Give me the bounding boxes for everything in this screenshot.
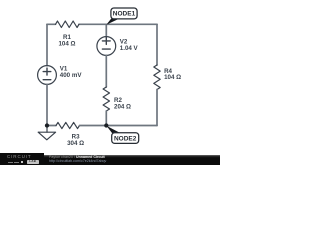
wire top from top-left corner to right corner	[47, 23, 157, 25]
resistor R4	[154, 65, 160, 90]
wire V2 top stub	[105, 24, 107, 36]
label V2 value	[120, 39, 139, 52]
wire left vertical upper (top corner to V1 top)	[46, 24, 48, 65]
voltage source V2	[97, 37, 116, 56]
node NODE1 flag	[106, 8, 137, 25]
node NODE2 flag	[107, 126, 139, 144]
footer bar	[0, 155, 220, 165]
CircuitLab logo	[0, 153, 44, 166]
wire bottom middle (R3 to NODE2 junction to right corner)	[80, 125, 158, 127]
resistor R3	[56, 122, 80, 128]
footer credits text	[49, 155, 219, 163]
svg-text:204 Ω: 204 Ω	[114, 103, 131, 110]
wire right vertical lower (R4 to bottom corner)	[156, 90, 158, 126]
wire left vertical lower (V1 bottom to ground junction)	[46, 84, 48, 125]
label R2 value	[114, 97, 131, 110]
svg-text:104 Ω: 104 Ω	[58, 40, 75, 47]
label R4 value	[164, 68, 181, 81]
label R3 value	[67, 134, 84, 148]
wire bottom left (junction to R3)	[47, 125, 56, 127]
svg-text:400 mV: 400 mV	[60, 72, 83, 79]
voltage source V1	[38, 66, 57, 85]
wire right vertical upper (top corner to R4)	[156, 24, 158, 65]
svg-text:304 Ω: 304 Ω	[67, 140, 84, 147]
junction dot at NODE2	[104, 123, 108, 127]
svg-text:NODE2: NODE2	[114, 135, 137, 142]
resistor R1	[56, 21, 80, 28]
wire R2 bottom to NODE2 junction	[105, 111, 107, 126]
wire V2 bottom to R2 top	[105, 55, 107, 87]
svg-text:104 Ω: 104 Ω	[164, 74, 181, 81]
label V1 value	[60, 66, 83, 79]
svg-text:NODE1: NODE1	[113, 11, 136, 18]
svg-text:1.04 V: 1.04 V	[120, 45, 139, 52]
ground	[38, 126, 55, 140]
resistor R2	[103, 87, 109, 111]
label R1 value	[58, 34, 75, 47]
junction dot at ground node	[45, 123, 49, 127]
